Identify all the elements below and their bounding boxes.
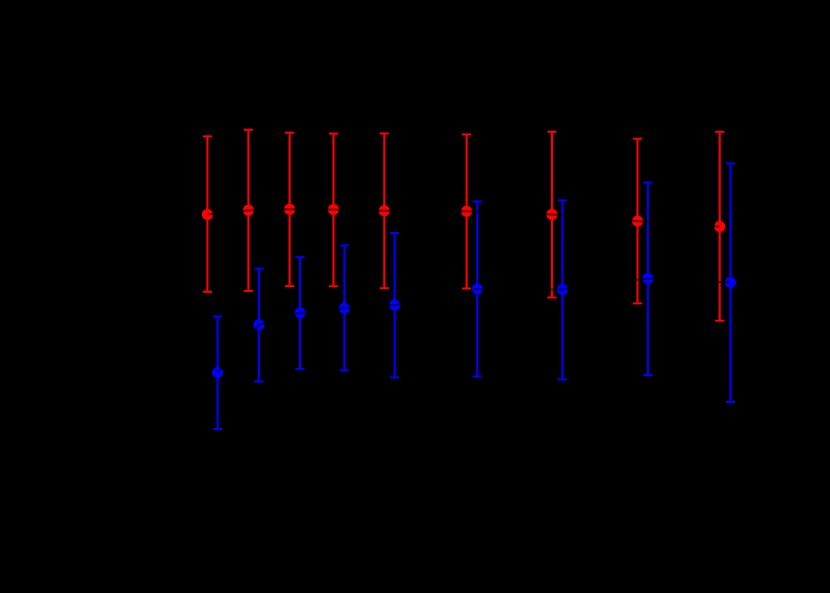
red errorbar 4 (series 1, point 4): [329, 134, 338, 287]
red marker 2: [243, 205, 254, 216]
blue errorbar 1 (series 2, point 1): [213, 316, 222, 429]
red errorbar 6 (series 1, point 6): [462, 134, 471, 288]
red marker 8: [632, 216, 643, 227]
blue marker 8: [642, 273, 653, 284]
red errorbar 9 (series 1, point 9): [715, 132, 724, 321]
blue errorbar 8 (series 2, point 8): [643, 183, 652, 376]
blue errorbar 3 (series 2, point 3): [295, 257, 304, 369]
blue marker 6: [472, 283, 483, 294]
red errorbar 1 (series 1, point 1): [203, 136, 212, 291]
red errorbar 3 (series 1, point 3): [285, 133, 294, 286]
blue errorbar 5 (series 2, point 5): [390, 233, 399, 377]
blue errorbar 2 (series 2, point 2): [254, 269, 263, 382]
blue errorbar 4 (series 2, point 4): [340, 245, 349, 370]
red marker 7: [546, 209, 557, 220]
blue marker 1: [212, 367, 223, 378]
red marker 6: [461, 206, 472, 217]
blue errorbar 6 (series 2, point 6): [473, 202, 482, 377]
black connector line through red series points: [207, 209, 719, 226]
red errorbar 2 (series 1, point 2): [244, 130, 253, 291]
red marker 1: [202, 209, 213, 220]
red errorbar 7 (series 1, point 7): [547, 132, 556, 298]
blue errorbar 9 (series 2, point 9): [726, 164, 735, 403]
red marker 9: [714, 221, 725, 232]
blue marker 9: [725, 277, 736, 288]
blue marker 3: [294, 307, 305, 318]
red errorbar 8 (series 1, point 8): [633, 139, 642, 304]
blue marker 5: [389, 299, 400, 310]
red marker 4: [328, 204, 339, 215]
red marker 5: [379, 205, 390, 216]
red marker 3: [284, 204, 295, 215]
black connector line through blue series points: [218, 279, 731, 373]
red errorbar 5 (series 1, point 5): [380, 134, 389, 289]
blue marker 2: [253, 319, 264, 330]
blue marker 4: [339, 303, 350, 314]
blue errorbar 7 (series 2, point 7): [558, 200, 567, 379]
blue marker 7: [557, 284, 568, 295]
